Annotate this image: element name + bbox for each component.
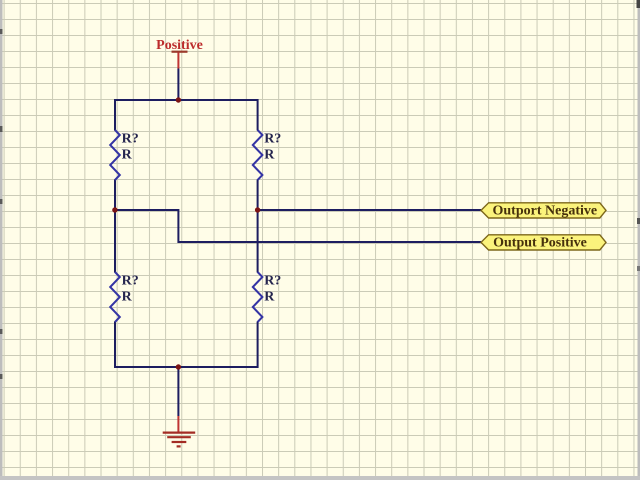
- svg-text:R: R: [264, 290, 275, 305]
- wire : left rail upper lead: [114, 99, 116, 131]
- svg-text:R: R: [122, 148, 133, 163]
- sheet edge strip left: [0, 0, 3, 480]
- svg-text:Output Positive: Output Positive: [493, 236, 587, 251]
- wire : left node step to Output Positive: [115, 210, 481, 242]
- wire : right node to Outport Negative: [258, 209, 481, 211]
- junction : right node: [255, 207, 260, 212]
- svg-text:R?: R?: [264, 132, 281, 147]
- wire : bottom rail: [115, 366, 258, 368]
- svg-text:R?: R?: [122, 132, 139, 147]
- wire : right rail lower lead: [257, 322, 259, 369]
- wire : left rail lower lead: [114, 322, 116, 369]
- wire : left rail between R's: [114, 180, 116, 273]
- power port Positive : bar: [172, 51, 188, 53]
- wire : right rail between R's: [257, 180, 259, 273]
- port Outport Negative: [481, 203, 606, 219]
- junction : left node: [112, 207, 117, 212]
- svg-text:R?: R?: [264, 274, 281, 289]
- power port Positive : red pin stub: [177, 53, 179, 69]
- wire : top rail: [115, 99, 258, 101]
- port Output Positive: [481, 235, 606, 251]
- ground: [163, 416, 196, 446]
- resistor R? (top-left): [110, 130, 139, 180]
- wire : bottom rail stub to ground: [177, 367, 179, 416]
- wire : right rail upper lead: [257, 99, 259, 131]
- junction : top rail / power: [176, 97, 181, 102]
- wire : power stub down to top rail: [177, 69, 179, 101]
- resistor R? (bottom-right): [253, 272, 282, 322]
- resistor R? (bottom-left): [110, 272, 139, 322]
- svg-text:R?: R?: [122, 274, 139, 289]
- resistor R? (top-right): [253, 130, 282, 180]
- junction : bottom rail / ground: [176, 364, 181, 369]
- svg-text:Outport Negative: Outport Negative: [493, 204, 598, 219]
- sheet edge strip right: [637, 0, 640, 480]
- svg-text:R: R: [264, 148, 275, 163]
- svg-text:R: R: [122, 290, 133, 305]
- sheet edge strip bottom: [0, 476, 640, 480]
